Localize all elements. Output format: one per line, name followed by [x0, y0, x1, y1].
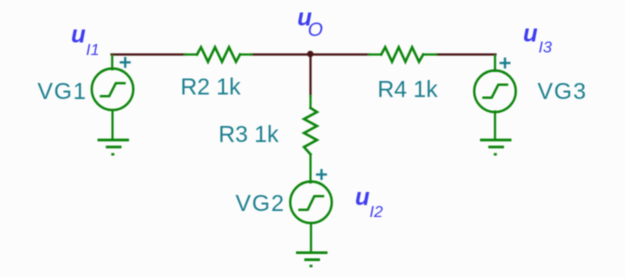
svg-text:u: u — [71, 22, 86, 49]
svg-text:I2: I2 — [370, 204, 383, 221]
svg-text:R3 1k: R3 1k — [219, 121, 280, 147]
svg-text:I3: I3 — [539, 40, 552, 57]
svg-text:R2 1k: R2 1k — [181, 74, 242, 100]
svg-text:R4 1k: R4 1k — [378, 76, 439, 102]
svg-text:VG1: VG1 — [38, 78, 88, 104]
svg-text:u: u — [355, 184, 370, 211]
svg-text:I1: I1 — [86, 42, 99, 59]
svg-text:VG2: VG2 — [236, 190, 286, 216]
svg-text:u: u — [523, 20, 538, 47]
svg-text:VG3: VG3 — [538, 78, 588, 104]
svg-text:O: O — [308, 19, 323, 41]
